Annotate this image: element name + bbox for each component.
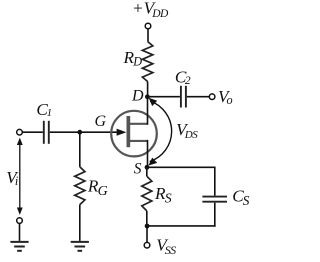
terminal Vo bbox=[209, 94, 215, 100]
resistor RG bbox=[75, 167, 85, 205]
wire Vi bottom to ground bbox=[19, 224, 21, 241]
wire CS branch down bbox=[214, 167, 216, 196]
wire RS to bottom node bbox=[146, 211, 148, 226]
wire node D to C2 bbox=[147, 96, 180, 98]
wire RD to node D bbox=[147, 82, 149, 98]
terminal Vi bottom bbox=[17, 218, 23, 224]
ground right bbox=[71, 242, 89, 251]
capacitor CS bbox=[202, 197, 227, 202]
resistor RS bbox=[142, 176, 152, 211]
wire C2 to Vo bbox=[187, 96, 209, 98]
wire S to RS bbox=[146, 167, 148, 176]
wire bottom node to VSS bbox=[146, 226, 148, 242]
JFET source lead bbox=[129, 140, 148, 142]
svg-text:D: D bbox=[131, 88, 144, 105]
node bottom bbox=[145, 224, 150, 229]
node gate junction bbox=[77, 130, 82, 135]
resistor RD bbox=[142, 42, 152, 82]
wire drain vertical bbox=[147, 97, 149, 125]
wire S to CS branch bbox=[147, 166, 215, 168]
wire Vi to C1 bbox=[22, 131, 43, 133]
terminal Vi top bbox=[17, 129, 23, 135]
svg-text:G: G bbox=[95, 113, 107, 130]
terminal VSS bbox=[144, 242, 150, 248]
svg-text:S: S bbox=[134, 161, 142, 178]
JFET drain lead bbox=[129, 123, 148, 125]
gate arrow bbox=[117, 129, 127, 136]
JFET channel bar bbox=[127, 116, 131, 147]
wire C1 to gate bbox=[50, 131, 118, 133]
capacitor C2 bbox=[181, 86, 186, 108]
node D bbox=[145, 94, 150, 99]
wire VDD to RD bbox=[147, 29, 149, 42]
Vi arrowhead up bbox=[17, 138, 23, 145]
wire bottom horizontal bbox=[147, 225, 215, 227]
wire source vertical bbox=[147, 140, 149, 167]
terminal +VDD bbox=[145, 23, 151, 29]
wire RG to ground bbox=[79, 205, 81, 241]
capacitor C1 bbox=[44, 121, 49, 144]
JFET Q1 circle bbox=[111, 111, 157, 157]
ground left bbox=[10, 242, 28, 251]
Vi arrow line bbox=[19, 141, 21, 213]
wire gate junction to RG bbox=[79, 132, 81, 167]
VDS arrowhead bottom bbox=[148, 158, 157, 166]
VDS arrowhead top bbox=[149, 98, 158, 106]
Vi arrowhead down bbox=[17, 208, 23, 215]
VDS arc bbox=[150, 101, 172, 161]
wire CS to bottom bbox=[214, 203, 216, 227]
node S bbox=[145, 165, 150, 170]
